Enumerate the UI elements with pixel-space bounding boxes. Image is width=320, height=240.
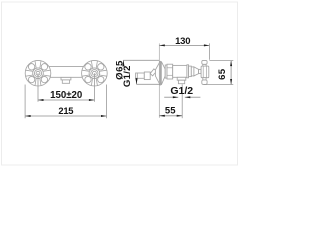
dimension Ø65	[114, 60, 160, 84]
dimension 150±20	[38, 73, 94, 102]
label G1/2 outlet	[164, 85, 200, 98]
outlet stub side	[177, 77, 186, 83]
union nut	[144, 72, 150, 80]
wall extension line	[158, 43, 160, 117]
wall inlet pipe	[136, 73, 145, 78]
right handle	[82, 60, 108, 86]
svg-text:55: 55	[165, 105, 176, 116]
dimension 130	[159, 36, 209, 60]
body bar	[44, 67, 89, 78]
page frame	[2, 2, 238, 165]
outlet fitting front	[61, 77, 71, 83]
svg-text:G1/2: G1/2	[122, 65, 133, 87]
svg-text:130: 130	[175, 36, 190, 47]
svg-text:G1/2: G1/2	[170, 85, 193, 97]
dimension 55	[159, 84, 182, 118]
valve body	[165, 64, 201, 79]
svg-text:150±20: 150±20	[50, 90, 82, 101]
eccentric connector	[150, 69, 156, 76]
escutcheon	[155, 61, 165, 85]
left handle	[25, 60, 51, 86]
handle side view	[201, 60, 209, 84]
svg-text:65: 65	[217, 68, 228, 80]
svg-text:215: 215	[58, 105, 73, 116]
label G1/2 wall inlet	[122, 65, 133, 87]
dimension 65	[204, 61, 234, 85]
dimension 215	[25, 85, 106, 119]
